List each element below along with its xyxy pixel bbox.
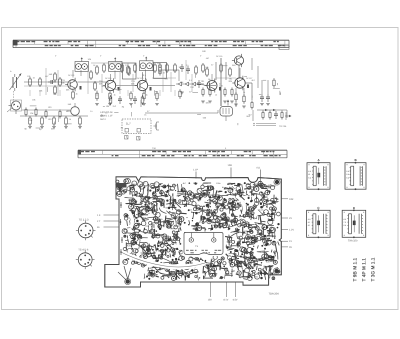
svg-text:100n: 100n: [132, 183, 136, 186]
svg-text:T 4P M 1.1: T 4P M 1.1: [362, 258, 368, 282]
svg-text:2V: 2V: [289, 217, 292, 220]
svg-text:10R: 10R: [289, 198, 294, 201]
svg-text:0L1: 0L1: [257, 167, 262, 170]
svg-text:TS 4-5-6: TS 4-5-6: [78, 248, 89, 251]
svg-text:15V: 15V: [208, 299, 213, 302]
svg-text:1k: 1k: [146, 94, 148, 97]
svg-text:TS 1.2.3: TS 1.2.3: [79, 219, 89, 222]
svg-text:TR 236: TR 236: [279, 125, 287, 128]
svg-text:1k: 1k: [76, 93, 78, 96]
svg-text:73A: 73A: [152, 147, 156, 150]
svg-text:AF115: AF115: [105, 77, 112, 80]
svg-text:AF116: AF116: [216, 55, 223, 58]
svg-text:100n: 100n: [172, 184, 176, 187]
svg-text:100n: 100n: [228, 182, 232, 185]
svg-text:1V: 1V: [289, 240, 292, 243]
svg-text:B201: B201: [117, 188, 123, 191]
svg-text:100n: 100n: [152, 183, 156, 186]
svg-text:AF114: AF114: [68, 74, 75, 77]
svg-text:AM 4: AM 4: [100, 118, 106, 121]
svg-text:0V: 0V: [289, 246, 292, 249]
svg-text:T 9B M 1.1: T 9B M 1.1: [352, 257, 358, 281]
svg-text:100n: 100n: [216, 182, 220, 185]
svg-text:TAA 320: TAA 320: [348, 240, 358, 243]
svg-text:AF116: AF116: [137, 77, 144, 80]
svg-text:1 F: 1 F: [97, 214, 101, 217]
svg-text:1.2V: 1.2V: [289, 229, 294, 232]
svg-text:T 3G M 1.1: T 3G M 1.1: [371, 257, 377, 281]
svg-text:2 T: 2 T: [97, 220, 101, 223]
svg-text:10R: 10R: [228, 164, 233, 167]
svg-text:0.5V: 0.5V: [233, 299, 238, 302]
svg-text:TS: TS: [195, 245, 198, 248]
svg-text:TDA 204: TDA 204: [269, 292, 280, 295]
svg-text:1.1P: 1.1P: [193, 168, 198, 171]
svg-text:100n: 100n: [255, 183, 259, 186]
svg-text:1k: 1k: [114, 94, 116, 97]
svg-text:8 1V: 8 1V: [224, 299, 229, 302]
svg-text:1L7: 1L7: [126, 122, 131, 126]
svg-text:1k: 1k: [215, 94, 217, 97]
